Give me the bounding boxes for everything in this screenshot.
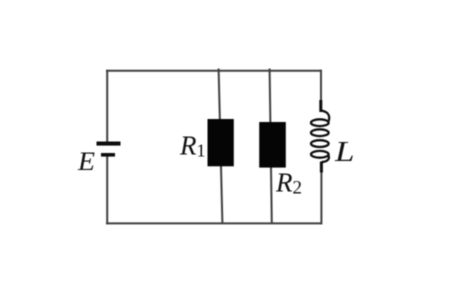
wire left upper — [106, 70, 108, 142]
wire right lower — [320, 165, 322, 224]
wire branch R1 — [219, 69, 223, 224]
resistor R2 — [259, 122, 286, 168]
svg-text:R2: R2 — [275, 168, 302, 199]
wire right upper — [320, 70, 322, 108]
wire branch R2 — [270, 69, 272, 224]
wire left lower — [106, 156, 108, 224]
wire top — [106, 70, 322, 72]
resistor R1 — [208, 119, 234, 166]
wire bottom — [106, 222, 322, 224]
battery E — [97, 142, 121, 157]
svg-text:R1: R1 — [179, 130, 206, 160]
inductor L — [311, 100, 329, 173]
svg-text:E: E — [77, 147, 95, 176]
svg-text:L: L — [334, 136, 355, 168]
